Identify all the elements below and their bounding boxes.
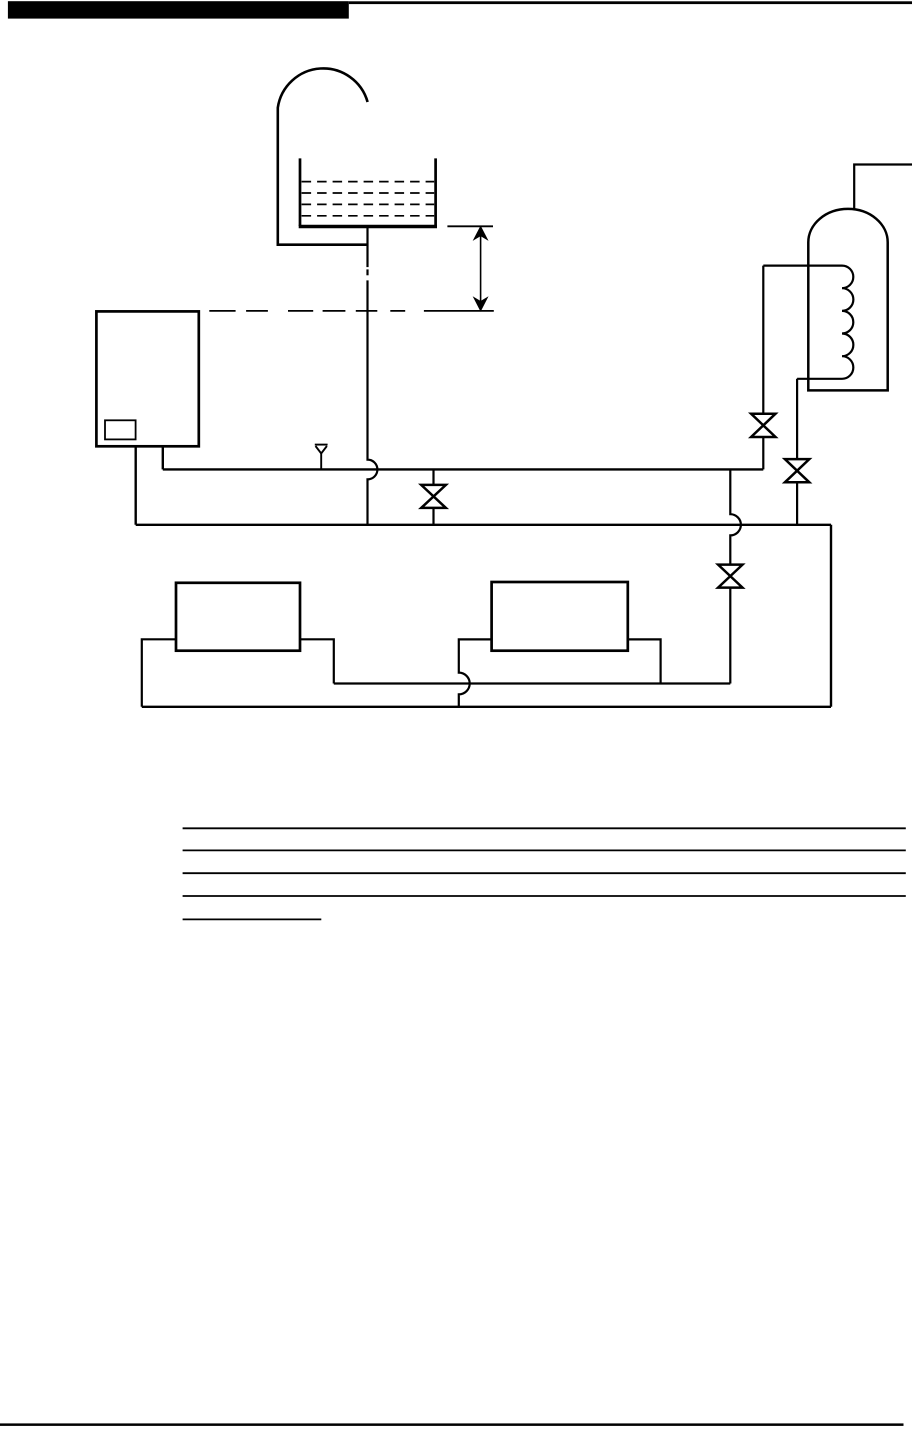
radiator R1 left pipe [142,639,176,707]
radiator R1 [176,583,300,651]
air release vent on flow main [315,445,328,469]
radiator branch pipe with crossover hop [730,469,741,683]
boiler [96,311,198,446]
water level dashes in cistern [302,182,435,216]
coil return valve V4 [785,459,809,482]
feed and expansion cistern [299,158,437,226]
short ruled line [183,918,322,920]
radiator R2 [492,582,628,651]
boiler flow pipe [162,446,164,469]
header redaction bar [8,1,349,18]
flow main [163,468,764,470]
dashed water-level reference line [209,310,494,312]
radiator branch valve V2 [718,565,742,588]
coil feed pipe [762,266,764,470]
radiator R2 right pipe [628,639,661,683]
header rule [349,1,912,4]
coil feed valve V3 [751,414,775,437]
footer rule [0,1423,904,1426]
radiator R2 left pipe with hop [459,639,492,706]
ruled note lines [183,828,906,896]
radiator feed horizontal [334,682,731,684]
open safety vent pipe [278,68,368,244]
head-height dimension arrow [474,227,487,311]
dimension tick at cistern base level [447,225,493,227]
radiator R1 right pipe [300,639,334,683]
hot water cylinder [808,209,887,391]
heating coil in cylinder [763,266,853,379]
hot water draw-off pipe [854,165,912,210]
return main [136,524,831,526]
cold feed pipe from cistern [368,228,378,525]
right riser [830,525,832,707]
boiler return pipe [134,446,136,525]
boiler control box [105,420,136,439]
bypass valve V1 [421,469,446,524]
bottom return line [142,706,831,708]
coil return pipe [796,379,798,525]
